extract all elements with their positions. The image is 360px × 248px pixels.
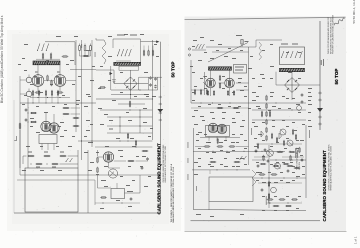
svg-text:KIRKBY-IN-ASHFIELD, NOTTS. ENG: KIRKBY-IN-ASHFIELD, NOTTS. ENGLAND. TEL … bbox=[330, 146, 333, 191]
svg-text:PROPERTY OF CARLSBRO SOUND EQU: PROPERTY OF CARLSBRO SOUND EQUIPMENT bbox=[331, 15, 334, 54]
svg-text:50 TOP: 50 TOP bbox=[334, 68, 339, 84]
svg-text:MANUFACTURERS RECOMMENDED TYPE: MANUFACTURERS RECOMMENDED TYPE No. 56 50… bbox=[172, 167, 175, 223]
svg-text:B/w-5C Carlsbro (U&B) andCarls: B/w-5C Carlsbro (U&B) andCarlsbro 50 Wat… bbox=[0, 15, 4, 103]
svg-text:56 50 001-1, 1A-1T: 56 50 001-1, 1A-1T bbox=[352, 0, 356, 24]
svg-text:56 30 014: 56 30 014 bbox=[299, 162, 301, 170]
svg-text:1 of 1: 1 of 1 bbox=[354, 236, 358, 244]
svg-text:CARLSBRO SOUND EQUIPMENT: CARLSBRO SOUND EQUIPMENT bbox=[322, 150, 327, 221]
svg-text:CARLSBRO SOUND EQUIPMENT: CARLSBRO SOUND EQUIPMENT bbox=[157, 143, 162, 214]
svg-text:50 TOP: 50 TOP bbox=[170, 61, 175, 77]
